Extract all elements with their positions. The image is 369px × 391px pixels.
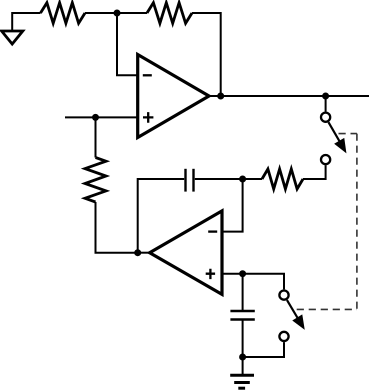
resistor R3 — [85, 158, 106, 203]
node junction noninverting/R3 — [92, 114, 99, 121]
node feedback/output junction — [217, 93, 224, 100]
ground (earth symbol at bottom) — [230, 357, 254, 388]
capacitor C2 — [230, 311, 254, 320]
op-amp U2 (pointing left) — [150, 211, 222, 295]
node noninverting/C2 junction — [239, 270, 246, 277]
gang link dashed line between SW1 and SW2 — [297, 134, 357, 310]
node C1/R4/U2 inverting junction — [239, 176, 246, 183]
wire U1 output row — [209, 95, 369, 97]
wire R4 to SW1 bottom contact — [303, 165, 326, 179]
capacitor C1 — [186, 169, 194, 192]
wire junction to U2 output tip — [138, 252, 151, 254]
wire R3 bottom to U2 output junction — [96, 202, 138, 253]
node output/SW1 junction — [322, 93, 329, 100]
wire U1 inverting input — [117, 13, 138, 75]
switch SW2 (SPST with arrow actuator) — [279, 291, 304, 342]
node U2 output junction — [134, 249, 141, 256]
wire U2 inverting input to feedback node — [222, 179, 243, 232]
wire R3 top lead — [95, 117, 97, 157]
ground (signal ground triangle at input) — [2, 31, 23, 44]
wire bottom row to SW2 bottom contact — [243, 342, 284, 357]
wire R1 to R2 — [85, 12, 147, 14]
wire feedback vertical up to C1 — [138, 179, 185, 253]
resistor R4 — [262, 169, 303, 189]
wire SW1 top lead — [325, 96, 327, 112]
wire C2 bottom lead — [242, 320, 244, 358]
wire U1 non-inverting input — [65, 116, 138, 118]
node junction R1/R2/U1 inverting input — [114, 10, 121, 17]
wire U2 non-inverting input to SW2 — [222, 274, 284, 290]
switch SW1 (SPST with arrow actuator) — [321, 113, 346, 165]
wire C1 to node B — [195, 178, 262, 180]
op-amp U1 — [138, 55, 209, 138]
wire ground to R1 — [12, 13, 40, 31]
resistor R1 — [41, 3, 86, 24]
resistor R2 (feedback) — [147, 3, 192, 24]
wire R2 to U1 output node — [192, 13, 221, 96]
node C2/SW2/ground junction — [239, 354, 246, 361]
wire C2 top lead — [242, 274, 244, 311]
